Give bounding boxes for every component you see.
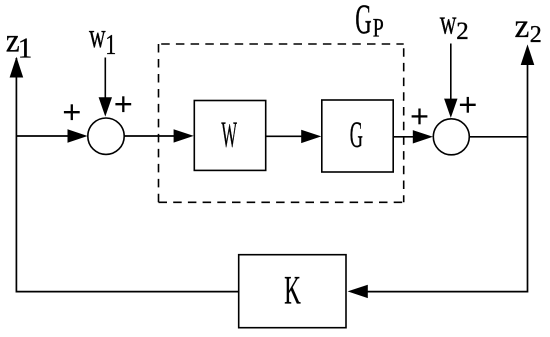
wire: left vertical feedback riser and bottom run to K input side <box>16 58 238 292</box>
wire: branch into summing junction S1 <box>16 129 87 142</box>
plus sign at S1 left input <box>64 104 80 120</box>
arrow into block K right side <box>348 285 368 298</box>
node z2 output arrow <box>521 44 535 65</box>
svg-text:1: 1 <box>18 33 33 65</box>
label G inside block <box>350 115 363 156</box>
node z1 output arrow <box>10 57 24 78</box>
svg-text:W: W <box>221 115 237 156</box>
wire: G output to summing junction S2 <box>393 130 433 143</box>
wire: W to G <box>266 130 322 143</box>
svg-text:2: 2 <box>530 22 542 48</box>
label w1 <box>89 16 116 61</box>
svg-text:2: 2 <box>456 18 469 45</box>
plus sign at S2 top input <box>460 97 476 113</box>
svg-text:P: P <box>373 14 384 43</box>
svg-text:G: G <box>355 0 371 44</box>
summing junction S2 <box>433 119 469 155</box>
svg-text:w: w <box>440 3 457 42</box>
block K <box>239 255 346 328</box>
label z2 <box>515 8 542 48</box>
wire: S1 output to block W <box>124 129 194 142</box>
block W <box>194 101 265 171</box>
label z1 <box>6 22 33 64</box>
wire: S2 output to right riser <box>469 136 527 138</box>
wire: w2 input drop into S2 <box>444 44 457 118</box>
plus sign at S1 top input <box>115 96 131 112</box>
label w2 <box>440 3 469 46</box>
label W inside block <box>221 115 237 156</box>
svg-text:z: z <box>515 8 530 45</box>
block G <box>322 100 393 172</box>
svg-text:G: G <box>350 115 363 156</box>
label K inside block <box>284 268 301 313</box>
summing junction S1 <box>88 118 124 154</box>
svg-text:w: w <box>89 16 106 55</box>
label Gp <box>355 0 384 44</box>
svg-text:K: K <box>284 268 301 313</box>
plus sign at S2 left input <box>412 109 428 125</box>
dashed boundary box Gp <box>159 44 404 202</box>
wire: right vertical riser (z2 up, feedback down) <box>368 63 528 292</box>
svg-text:1: 1 <box>105 30 116 61</box>
wire: w1 input drop into S1 <box>99 58 112 117</box>
